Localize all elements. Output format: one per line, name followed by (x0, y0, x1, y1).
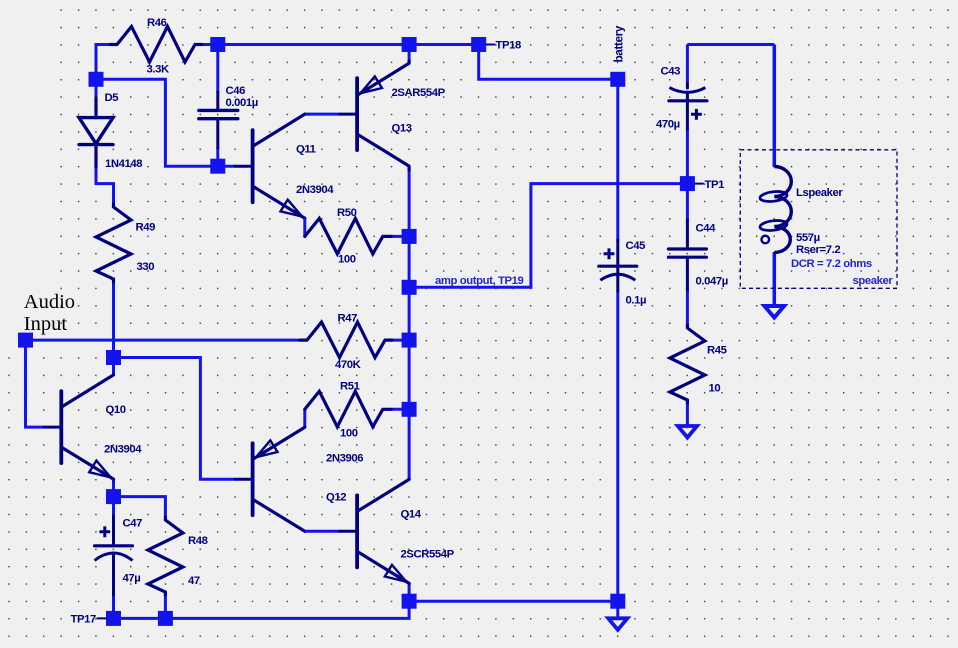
ground (678, 426, 697, 438)
svg-text:Q12: Q12 (326, 492, 346, 504)
wire (392, 339, 409, 342)
wire (303, 409, 306, 427)
node Audio Input (18, 333, 33, 348)
wire (391, 235, 409, 238)
wire (164, 594, 167, 618)
junction (106, 489, 121, 504)
wire (114, 601, 410, 618)
wire (114, 497, 166, 517)
svg-text:R49: R49 (136, 222, 156, 234)
svg-text:2N3906: 2N3906 (326, 453, 363, 465)
wire (305, 530, 340, 533)
svg-text:battery: battery (612, 25, 626, 62)
svg-text:557µ: 557µ (796, 232, 820, 244)
wire (479, 45, 618, 80)
junction (402, 229, 417, 244)
svg-text:Q10: Q10 (106, 404, 126, 416)
node Audio Input (24, 291, 75, 335)
wire (95, 43, 98, 79)
junction (210, 159, 225, 174)
ground (765, 306, 785, 318)
svg-text:0.1µ: 0.1µ (626, 295, 647, 307)
wire (202, 43, 409, 46)
svg-text:100: 100 (340, 428, 358, 440)
node TP18 (471, 37, 486, 52)
resistor R50 (305, 218, 391, 254)
svg-text:R46: R46 (147, 17, 167, 29)
svg-text:470K: 470K (335, 359, 362, 371)
diode D5 (79, 98, 113, 167)
transistor Q13 (340, 61, 409, 170)
capacitor C47 (95, 516, 133, 595)
node TP19 (402, 280, 417, 295)
svg-text:speaker: speaker (853, 275, 894, 287)
junction (89, 72, 104, 87)
svg-text:Q11: Q11 (296, 144, 316, 156)
svg-text:100: 100 (338, 254, 356, 266)
junction (402, 594, 417, 609)
svg-text:C47: C47 (123, 518, 143, 530)
wire (616, 290, 619, 601)
svg-text:3.3K: 3.3K (147, 64, 171, 76)
capacitor C46 (199, 92, 238, 148)
svg-text:R50: R50 (337, 207, 357, 219)
wire (26, 340, 44, 427)
svg-text:10: 10 (709, 383, 721, 395)
svg-text:TP18: TP18 (496, 40, 522, 52)
wire (112, 283, 115, 375)
svg-text:R48: R48 (188, 535, 208, 547)
svg-text:TP17: TP17 (71, 614, 97, 626)
svg-text:2SAR554P: 2SAR554P (392, 87, 446, 99)
wire (686, 45, 689, 85)
wire (616, 79, 619, 241)
wire (112, 497, 115, 517)
wire (303, 218, 306, 236)
wire (305, 113, 340, 116)
svg-text:2SCR554P: 2SCR554P (401, 549, 455, 561)
wire (687, 43, 774, 46)
svg-text:D5: D5 (105, 92, 119, 104)
wire (773, 45, 777, 168)
transistor Q10 (44, 375, 114, 479)
wire (409, 43, 479, 46)
svg-text:470µ: 470µ (656, 119, 680, 131)
capacitor C43 (669, 84, 707, 129)
resistor R51 (305, 391, 391, 427)
wire (391, 408, 409, 411)
svg-text:C44: C44 (696, 223, 717, 235)
svg-text:2N3904: 2N3904 (104, 444, 142, 456)
wire (686, 289, 689, 325)
wire (96, 167, 114, 204)
resistor R47 (300, 322, 392, 358)
junction (106, 350, 121, 365)
junction (402, 333, 417, 348)
wire (112, 479, 115, 497)
capacitor C44 (668, 220, 706, 290)
wire (26, 339, 301, 342)
wire (218, 165, 235, 168)
node TP1 (680, 176, 695, 191)
svg-text:DCR = 7.2 ohms: DCR = 7.2 ohms (791, 258, 872, 270)
junction (210, 37, 225, 52)
junction (158, 611, 173, 626)
svg-text:Q14: Q14 (401, 509, 422, 521)
svg-text:Rser=7.2: Rser=7.2 (796, 244, 840, 256)
junction (610, 594, 625, 609)
wire (409, 184, 687, 288)
wire (408, 583, 411, 601)
ground (608, 618, 627, 630)
svg-text:Input: Input (24, 313, 68, 335)
inductor Lspeaker (759, 167, 791, 253)
wire (408, 45, 411, 62)
svg-text:2N3904: 2N3904 (296, 184, 334, 196)
wire (773, 252, 777, 306)
resistor R46 (110, 27, 202, 63)
svg-text:0.047µ: 0.047µ (696, 276, 728, 288)
svg-text:Lspeaker: Lspeaker (796, 187, 843, 199)
resistor R49 (96, 204, 131, 282)
svg-text:Q13: Q13 (392, 123, 412, 135)
svg-text:Audio: Audio (24, 291, 75, 313)
junction (402, 402, 417, 417)
svg-text:C46: C46 (226, 85, 246, 97)
svg-text:0.001µ: 0.001µ (226, 97, 258, 109)
transistor Q12 (235, 427, 305, 531)
wire (96, 43, 112, 46)
wire (686, 129, 689, 184)
svg-text:R51: R51 (340, 381, 360, 393)
capacitor C45 (599, 240, 637, 291)
svg-text:47µ: 47µ (123, 573, 141, 585)
svg-text:R45: R45 (707, 345, 727, 357)
junction (402, 37, 417, 52)
node TP17 (106, 611, 121, 626)
svg-text:amp output, TP19: amp output, TP19 (435, 275, 523, 287)
svg-text:C43: C43 (661, 66, 681, 78)
svg-text:TP1: TP1 (705, 179, 725, 191)
svg-text:R47: R47 (338, 313, 358, 325)
wire (112, 594, 115, 618)
svg-text:330: 330 (137, 261, 155, 273)
label TP1 (695, 179, 724, 191)
wire (408, 170, 411, 479)
resistor R45 (670, 325, 705, 403)
wire (616, 601, 619, 618)
label TP18 (486, 40, 521, 52)
wire (686, 403, 689, 426)
net battery (612, 25, 626, 62)
wire (95, 79, 98, 98)
svg-text:C45: C45 (626, 240, 646, 252)
wire (686, 184, 689, 221)
wire (216, 147, 219, 166)
label TP17 (71, 614, 107, 626)
speaker box (740, 150, 897, 288)
wire (96, 79, 218, 166)
junction (610, 72, 625, 87)
transistor Q14 (340, 479, 409, 583)
resistor R48 (148, 517, 183, 595)
svg-text:1N4148: 1N4148 (105, 158, 142, 170)
wire (216, 45, 219, 94)
wire (409, 600, 618, 603)
wire (114, 358, 236, 480)
svg-text:47: 47 (188, 575, 200, 587)
